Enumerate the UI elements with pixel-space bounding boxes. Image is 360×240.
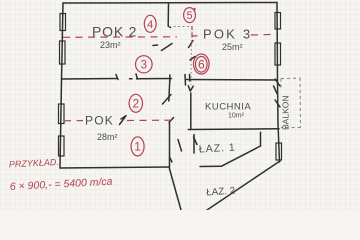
svg-text:BALKON: BALKON bbox=[281, 96, 291, 131]
svg-text:23m²: 23m² bbox=[100, 40, 121, 50]
svg-text:1: 1 bbox=[134, 142, 140, 154]
svg-text:4: 4 bbox=[147, 19, 153, 31]
svg-text:3: 3 bbox=[141, 60, 147, 72]
svg-text:6 × 900,- = 5400 m/ca: 6 × 900,- = 5400 m/ca bbox=[10, 176, 113, 193]
svg-text:ŁAZ. 1: ŁAZ. 1 bbox=[199, 142, 237, 156]
svg-text:6: 6 bbox=[198, 58, 205, 72]
svg-text:POK 2: POK 2 bbox=[92, 24, 137, 40]
svg-text:KUCHNIA: KUCHNIA bbox=[205, 102, 251, 113]
svg-text:POK 3: POK 3 bbox=[203, 27, 252, 42]
svg-text:10m²: 10m² bbox=[228, 113, 245, 120]
svg-text:25m²: 25m² bbox=[222, 42, 243, 52]
svg-text:POK: POK bbox=[85, 114, 114, 128]
svg-text:PRZYKŁAD.: PRZYKŁAD. bbox=[9, 157, 59, 170]
svg-text:ŁAZ. 2: ŁAZ. 2 bbox=[206, 186, 236, 199]
svg-text:28m²: 28m² bbox=[97, 132, 118, 142]
svg-text:2: 2 bbox=[132, 97, 139, 111]
svg-text:5: 5 bbox=[186, 10, 192, 22]
